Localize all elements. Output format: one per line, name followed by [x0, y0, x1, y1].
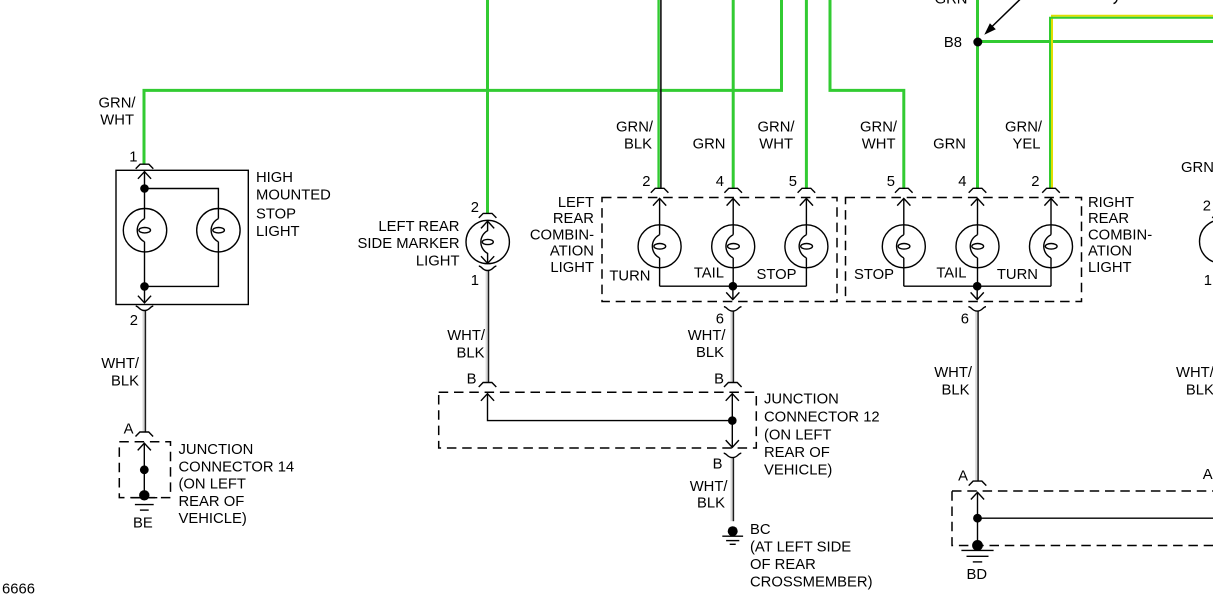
- pin 5 arrow right combination: [897, 198, 910, 205]
- bus wire right combination: [904, 286, 1051, 299]
- svg-text:WHT/: WHT/: [1176, 365, 1213, 381]
- left rear side marker light bulb circle: [466, 220, 509, 263]
- connector pin B cap right of junction connector 12: [724, 383, 742, 388]
- connector cap pin 2 right combination: [1042, 188, 1060, 193]
- svg-text:TURN: TURN: [997, 267, 1038, 283]
- pin 5 arrow left combination: [800, 198, 813, 205]
- wire WHT/BLK black half: [977, 311, 979, 481]
- svg-text:HIGH: HIGH: [256, 170, 293, 186]
- svg-text:GRN: GRN: [693, 137, 726, 153]
- svg-text:1: 1: [471, 273, 479, 289]
- node B8 junction dot: [973, 38, 982, 47]
- pin 2 arrow left combination: [653, 198, 666, 205]
- wire WHT/BLK from junction connector 12 pin B to ground BC (white half): [731, 458, 733, 521]
- wire shaft left branch high mounted stop light: [144, 171, 146, 302]
- connector pin B cup bottom junction connector 12: [724, 453, 742, 457]
- svg-text:LIGHT: LIGHT: [256, 224, 300, 240]
- svg-text:REAR: REAR: [1088, 211, 1129, 227]
- svg-text:COMBIN-: COMBIN-: [1088, 227, 1152, 243]
- svg-text:BLK: BLK: [111, 374, 139, 390]
- svg-text:BLK: BLK: [1186, 382, 1213, 398]
- junction connector 14 dashed box: [119, 442, 170, 498]
- svg-text:YEL: YEL: [1013, 137, 1041, 153]
- stop bulb right combination: [903, 199, 905, 287]
- svg-text:WHT: WHT: [100, 112, 134, 128]
- svg-text:BLK: BLK: [696, 345, 724, 361]
- svg-text:GRN/: GRN/: [616, 120, 654, 136]
- svg-text:B: B: [713, 457, 723, 473]
- svg-text:4: 4: [716, 174, 724, 190]
- connector pin 2 cap of side marker: [479, 213, 497, 218]
- ground symbol BC: [722, 536, 743, 544]
- turn bulb right combination: [1050, 199, 1052, 287]
- svg-text:TURN: TURN: [609, 269, 650, 285]
- svg-text:A: A: [124, 422, 134, 438]
- svg-text:2: 2: [1031, 174, 1039, 190]
- pin B arrow right junction connector 12: [726, 394, 739, 401]
- svg-text:CONNECTOR 12: CONNECTOR 12: [764, 410, 880, 426]
- svg-text:WHT: WHT: [759, 137, 793, 153]
- pin B arrow bottom junction connector 12: [726, 440, 739, 447]
- internal bus junction connector 12: [488, 394, 733, 448]
- wire GRN/WHT to RIGHT REAR COMBINATION LIGHT pin 5: [830, 0, 904, 188]
- svg-text:LIGHT: LIGHT: [1088, 260, 1132, 276]
- side marker filament: [481, 221, 488, 264]
- pin 6 arrow right combination: [971, 292, 984, 299]
- pin 4 arrow left combination: [727, 198, 740, 205]
- svg-text:BLK: BLK: [697, 495, 725, 511]
- svg-text:BC: BC: [750, 522, 771, 538]
- connector pin 6 cup right combination: [968, 307, 986, 311]
- wire right branch high mounted stop light: [145, 189, 219, 287]
- svg-text:A: A: [1203, 467, 1213, 483]
- svg-text:WHT/: WHT/: [447, 328, 486, 344]
- svg-text:CONNECTOR 14: CONNECTOR 14: [179, 459, 295, 475]
- svg-text:WHT/: WHT/: [688, 328, 727, 344]
- connector cap pin 2 left combination: [651, 188, 669, 193]
- svg-text:GRN: GRN: [935, 0, 968, 7]
- svg-text:(ON LEFT: (ON LEFT: [764, 428, 831, 444]
- connector pin A cap of junction connector 14: [136, 432, 154, 437]
- ground dot BC: [728, 526, 738, 536]
- svg-text:REAR: REAR: [553, 211, 594, 227]
- junction dot junction connector 14: [140, 465, 149, 474]
- svg-text:B8: B8: [944, 35, 962, 51]
- wire WHT/BLK black half: [732, 311, 734, 382]
- stop bulb left combination: [805, 199, 807, 287]
- svg-text:STOP: STOP: [854, 267, 894, 283]
- connector pin B cap left of junction connector 12: [479, 383, 497, 388]
- svg-text:GRN/: GRN/: [1005, 120, 1043, 136]
- junction dot top inside high mounted stop light: [140, 184, 149, 193]
- svg-text:VEHICLE): VEHICLE): [179, 511, 247, 527]
- right rear combination light dashed box: [846, 198, 1082, 302]
- svg-text:SIDE MARKER: SIDE MARKER: [358, 236, 460, 252]
- pin 2 arrow inside high mounted stop light: [138, 296, 151, 303]
- pin 1 arrow inside high mounted stop light: [138, 172, 151, 179]
- junction dot junction connector 12: [728, 416, 737, 425]
- svg-text:ATION: ATION: [550, 244, 594, 260]
- svg-text:STOP: STOP: [256, 206, 296, 222]
- svg-text:BLK: BLK: [942, 382, 970, 398]
- svg-text:5: 5: [887, 174, 895, 190]
- svg-text:BE: BE: [133, 516, 153, 532]
- svg-text:6: 6: [716, 311, 724, 327]
- bulb left of high mounted stop light: [123, 209, 166, 252]
- internal wire BD box: [978, 492, 1213, 545]
- wire GRN node B8 horizontal branch: [978, 40, 1213, 43]
- svg-text:GRN/: GRN/: [758, 120, 796, 136]
- tail bulb right combination: [977, 199, 979, 287]
- svg-text:LIGHT: LIGHT: [416, 253, 460, 269]
- high mounted stop light box: [116, 170, 248, 304]
- wire WHT/BLK from RIGHT REAR COMBINATION LIGHT pin 6 to junction connector BD pin A (white half): [975, 311, 977, 481]
- wire GRN node B8 vertical to RIGHT REAR COMBINATION LIGHT pin 4: [976, 0, 979, 188]
- svg-text:WHT/: WHT/: [934, 365, 973, 381]
- turn bulb left combination: [659, 199, 661, 287]
- wire GRN/YEL green half: [1050, 18, 1213, 189]
- svg-text:LEFT REAR: LEFT REAR: [378, 219, 459, 235]
- svg-text:TAIL: TAIL: [694, 266, 724, 282]
- connector pin 6 cup left combination: [724, 307, 742, 311]
- svg-text:(AT LEFT SIDE: (AT LEFT SIDE: [750, 540, 851, 556]
- connector pin 1 cap of high mounted stop light: [136, 164, 154, 169]
- connector cap pin 5 right combination: [895, 188, 913, 193]
- svg-text:1: 1: [1204, 273, 1212, 289]
- svg-text:BLK: BLK: [457, 345, 485, 361]
- bulb right of high mounted stop light: [197, 209, 240, 252]
- junction dot left combination: [729, 282, 738, 291]
- svg-text:STOP: STOP: [756, 267, 796, 283]
- pin A arrow BD box: [971, 492, 984, 499]
- connector cap pin 4 left combination: [724, 188, 742, 193]
- wire GRN/WHT net (top feed to HIGH MOUNTED STOP LIGHT pin 1): [144, 0, 782, 164]
- svg-text:GRN/: GRN/: [99, 95, 137, 111]
- junction connector 12 dashed box: [439, 392, 757, 448]
- svg-text:B: B: [467, 372, 477, 388]
- svg-text:A: A: [958, 468, 968, 484]
- ground dot BE: [139, 490, 149, 500]
- svg-text:2: 2: [130, 313, 138, 329]
- wire GRN/BLK to LEFT REAR COMBINATION LIGHT pin 2 (green half): [657, 0, 659, 188]
- wire WHT/BLK from LEFT REAR COMBINATION LIGHT pin 6 to junction connector 12 pin B (white half): [731, 311, 733, 382]
- svg-text:2: 2: [642, 174, 650, 190]
- wire GRN/YEL to RIGHT REAR COMBINATION LIGHT pin 2 (yellow half): [1052, 16, 1213, 189]
- svg-text:GRN: GRN: [1181, 160, 1213, 176]
- svg-text:RIGHT: RIGHT: [1088, 195, 1134, 211]
- svg-text:GRN: GRN: [933, 137, 966, 153]
- svg-text:OF REAR: OF REAR: [750, 557, 816, 573]
- svg-text:REAR OF: REAR OF: [764, 445, 830, 461]
- svg-text:MOUNTED: MOUNTED: [256, 188, 331, 204]
- ground symbol BE: [131, 498, 157, 510]
- arrow pointer to node B8: [991, 0, 1023, 28]
- svg-text:CROSSMEMBER): CROSSMEMBER): [750, 575, 873, 591]
- pin A arrow junction connector 14: [138, 443, 151, 450]
- wire WHT/BLK black half: [144, 311, 146, 432]
- junction dot bottom inside high mounted stop light: [140, 282, 149, 291]
- svg-text:TAIL: TAIL: [936, 266, 966, 282]
- svg-text:JUNCTION: JUNCTION: [179, 442, 254, 458]
- left rear combination light dashed box: [602, 198, 837, 302]
- tail bulb left combination: [732, 199, 734, 287]
- svg-text:WHT/: WHT/: [690, 479, 729, 495]
- svg-text:4: 4: [958, 174, 966, 190]
- connector cap pin 5 left combination: [798, 188, 816, 193]
- svg-text:WHT/: WHT/: [101, 356, 140, 372]
- wire WHT/BLK black half: [732, 458, 734, 521]
- pin 6 arrow left combination: [726, 292, 739, 299]
- svg-text:(ON LEFT: (ON LEFT: [179, 477, 246, 493]
- wire WHT/BLK black half: [488, 271, 490, 382]
- junction connector BD dashed box: [952, 491, 1213, 546]
- svg-text:WHT: WHT: [862, 137, 896, 153]
- svg-text:BD: BD: [967, 567, 988, 583]
- connector pin A cap of BD box: [969, 481, 987, 486]
- svg-text:ATION: ATION: [1088, 244, 1132, 260]
- pin 2 arrow of side marker: [481, 221, 494, 228]
- pin B arrow left junction connector 12: [481, 394, 494, 401]
- svg-text:2: 2: [1203, 198, 1211, 214]
- wire GRN/BLK black half: [660, 0, 662, 188]
- svg-text:VEHICLE): VEHICLE): [764, 463, 832, 479]
- wire GRN to LEFT REAR COMBINATION LIGHT pin 4: [732, 0, 735, 188]
- svg-text:REAR OF: REAR OF: [179, 494, 245, 510]
- wire WHT/BLK from HIGH MOUNTED STOP LIGHT pin 2 to junction connector 14 pin A (white half): [143, 311, 145, 432]
- wire WHT/BLK from LEFT REAR SIDE MARKER LIGHT pin 1 to junction connector 12 pin B (white half): [486, 271, 488, 382]
- svg-text:LEFT: LEFT: [558, 195, 594, 211]
- junction dot right combination: [973, 282, 982, 291]
- svg-text:2: 2: [471, 200, 479, 216]
- right side marker connector cap partial: [1212, 213, 1213, 218]
- wire GRN to LEFT REAR SIDE MARKER LIGHT pin 2: [486, 0, 489, 213]
- right rear side marker light partial circle: [1200, 220, 1213, 263]
- connector cap pin 4 right combination: [969, 188, 987, 193]
- ground symbol BD: [961, 550, 993, 562]
- wire GRN/WHT to LEFT REAR COMBINATION LIGHT pin 5: [805, 0, 808, 188]
- pin 4 arrow right combination: [971, 198, 984, 205]
- pin 2 arrow right combination: [1044, 198, 1057, 205]
- svg-text:6: 6: [961, 311, 969, 327]
- pin 1 arrow of side marker: [481, 256, 494, 263]
- junction dot BD box: [973, 514, 982, 523]
- bus wire left combination: [660, 286, 807, 299]
- svg-text:JUNCTION: JUNCTION: [764, 392, 839, 408]
- svg-text:BLK: BLK: [624, 137, 652, 153]
- connector pin 1 cup of side marker: [479, 266, 497, 270]
- connector pin 2 cup of high mounted stop light: [136, 306, 154, 310]
- svg-text:B: B: [714, 372, 724, 388]
- svg-text:GRN/: GRN/: [860, 120, 898, 136]
- ground dot BD: [972, 540, 983, 551]
- svg-text:LIGHT: LIGHT: [550, 260, 594, 276]
- internal wire junction connector 14: [143, 443, 145, 495]
- svg-text:1: 1: [129, 149, 137, 165]
- svg-text:5: 5: [789, 174, 797, 190]
- svg-text:6666: 6666: [2, 581, 35, 595]
- cut-off glyph top right: [1114, 0, 1118, 4]
- svg-text:COMBIN-: COMBIN-: [530, 227, 594, 243]
